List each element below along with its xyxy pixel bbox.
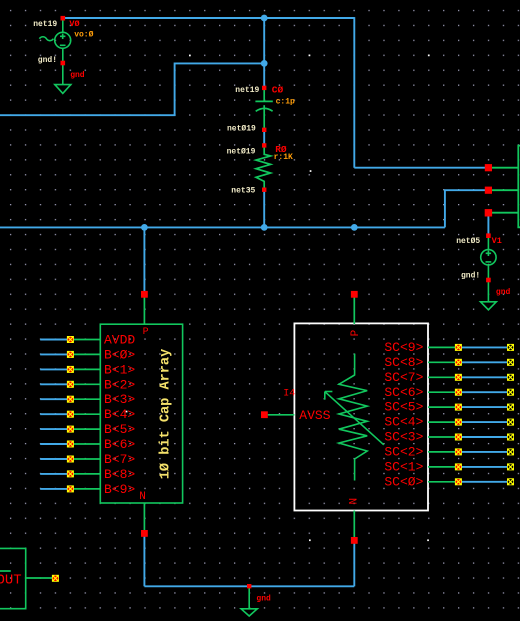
wire res block bottom bbox=[353, 544, 355, 587]
svg-text:SC<1>: SC<1> bbox=[384, 460, 423, 475]
cap array pin lead N bbox=[143, 503, 145, 531]
svg-text:SC<5>: SC<5> bbox=[384, 400, 423, 415]
pin io SC0 bbox=[455, 478, 462, 485]
capacitor C0 bbox=[255, 89, 272, 129]
pin square I4 N bbox=[351, 537, 358, 544]
wire B pin stub 7 bbox=[40, 443, 70, 445]
wire green stub B9 bbox=[71, 488, 101, 490]
svg-text:netØ5: netØ5 bbox=[456, 237, 480, 246]
wire net019 bbox=[263, 130, 265, 145]
pin io SC3 bbox=[455, 434, 462, 441]
svg-text:netØ19: netØ19 bbox=[227, 125, 256, 134]
pin square I4 P bbox=[351, 291, 358, 298]
wire cap top bbox=[263, 17, 265, 87]
wire green right pin1 bbox=[492, 167, 519, 169]
ground symbol V0 bbox=[55, 85, 71, 94]
svg-text:1Ø bit Cap Array: 1Ø bit Cap Array bbox=[159, 349, 174, 480]
junction net35 RC bbox=[261, 224, 268, 231]
svg-text:gnd: gnd bbox=[496, 288, 511, 297]
pin io B7 bbox=[67, 456, 74, 463]
pin square N bbox=[141, 530, 148, 537]
pin io SC8 bbox=[455, 359, 462, 366]
wire SC pin stub 4 bbox=[459, 406, 509, 408]
pin C0 top bbox=[262, 86, 266, 90]
wire cap array bottom bbox=[143, 536, 145, 586]
pin io OUT bbox=[52, 575, 59, 582]
block I4 pin lead N bbox=[353, 511, 355, 538]
pin io B3 bbox=[67, 396, 74, 403]
pin C0 bottom bbox=[262, 128, 266, 132]
svg-text:SC<6>: SC<6> bbox=[384, 385, 423, 400]
pin V0 plus bbox=[61, 16, 66, 21]
wire SC pin stub 1 bbox=[459, 361, 509, 363]
pin x SC5 bbox=[507, 404, 514, 411]
pin io B5 bbox=[67, 426, 74, 433]
wire green stub SC1 bbox=[428, 466, 459, 468]
pin V0 minus bbox=[61, 61, 66, 66]
pin io SC2 bbox=[455, 448, 462, 455]
wire SC pin stub 9 bbox=[459, 481, 509, 483]
pin x SC2 bbox=[507, 448, 514, 455]
wire green stub SC6 bbox=[428, 391, 459, 393]
wiper arrow bbox=[325, 392, 384, 445]
wire green stub B0 bbox=[71, 353, 101, 355]
ground symbol V1 bbox=[481, 302, 497, 310]
wire left step bbox=[0, 63, 264, 115]
wire green stub SC7 bbox=[428, 376, 459, 378]
svg-text:B<5>: B<5> bbox=[104, 422, 135, 437]
svg-text:B<1>: B<1> bbox=[104, 362, 135, 377]
pin square right 3 bbox=[485, 209, 492, 216]
svg-text:gnd: gnd bbox=[256, 595, 271, 604]
wire B pin stub 4 bbox=[40, 398, 70, 400]
wire net19 top bbox=[63, 17, 355, 19]
svg-text:SC<9>: SC<9> bbox=[384, 340, 423, 355]
wire SC pin stub 8 bbox=[459, 466, 509, 468]
resistor R0 bbox=[256, 147, 271, 189]
svg-text:B<3>: B<3> bbox=[104, 392, 135, 407]
pin V1 plus bbox=[486, 233, 491, 238]
pin x SC0 bbox=[507, 478, 514, 485]
wire green stub B6 bbox=[71, 443, 101, 445]
svg-text:N: N bbox=[348, 498, 360, 505]
junction net19 left bbox=[261, 60, 268, 67]
svg-text:gnd!: gnd! bbox=[38, 56, 57, 65]
svg-text:net19: net19 bbox=[235, 86, 259, 95]
pin x SC8 bbox=[507, 359, 514, 366]
wire SC pin stub 5 bbox=[459, 421, 509, 423]
svg-text:I4: I4 bbox=[283, 389, 295, 400]
svg-text:B<2>: B<2> bbox=[104, 377, 135, 392]
wire green stub SC5 bbox=[428, 406, 459, 408]
pin io B2 bbox=[67, 381, 74, 388]
block I4 box bbox=[294, 323, 428, 510]
svg-text:B<Ø>: B<Ø> bbox=[104, 347, 135, 362]
svg-text:vo:Ø: vo:Ø bbox=[74, 30, 93, 39]
svg-text:r:1K: r:1K bbox=[274, 153, 293, 162]
wire green stub B1 bbox=[71, 368, 101, 370]
wire net35 bbox=[263, 190, 265, 227]
cap array pin lead P bbox=[143, 297, 145, 324]
svg-text:P: P bbox=[143, 327, 149, 338]
wire green right pin3 bbox=[492, 212, 519, 214]
pin io B6 bbox=[67, 441, 74, 448]
svg-text:SC<Ø>: SC<Ø> bbox=[384, 474, 423, 489]
pin io B0 bbox=[67, 351, 74, 358]
svg-text:B<8>: B<8> bbox=[104, 467, 135, 482]
pin x SC6 bbox=[507, 389, 514, 396]
pin io SC5 bbox=[455, 404, 462, 411]
wire bottom horizontal bbox=[144, 585, 354, 587]
svg-text:gnd!: gnd! bbox=[461, 272, 480, 281]
pin square right 2 bbox=[485, 187, 492, 194]
junction net19 top bbox=[261, 15, 268, 22]
wire green stub B4 bbox=[71, 413, 101, 415]
wire right vertical bbox=[353, 17, 355, 168]
pin io SC9 bbox=[455, 344, 462, 351]
variable resistor bbox=[339, 354, 367, 481]
wire SC pin stub 2 bbox=[459, 376, 509, 378]
pin io SC6 bbox=[455, 389, 462, 396]
wire cap array top bbox=[143, 227, 145, 292]
svg-text:SC<2>: SC<2> bbox=[384, 445, 423, 460]
wire green stub B5 bbox=[71, 428, 101, 430]
wire B pin stub 1 bbox=[40, 353, 70, 355]
pin io B9 bbox=[67, 485, 74, 492]
junction net35 P right bbox=[351, 224, 358, 231]
wire green right pin2 bbox=[492, 189, 519, 191]
wire B pin stub 3 bbox=[40, 383, 70, 385]
voltage source V0 bbox=[39, 19, 70, 85]
wire SC pin stub 7 bbox=[459, 451, 509, 453]
voltage source V1 bbox=[481, 237, 496, 302]
wire green stub AVDD bbox=[71, 339, 101, 341]
wire AVSS stub bbox=[268, 414, 295, 416]
OUT block box bbox=[0, 548, 26, 608]
pin x SC9 bbox=[507, 344, 514, 351]
svg-text:net35: net35 bbox=[231, 186, 255, 195]
pin io B4 bbox=[67, 411, 74, 418]
wire B pin stub 8 bbox=[40, 458, 70, 460]
pin R0 top bbox=[262, 143, 266, 147]
svg-text:B<6>: B<6> bbox=[104, 437, 135, 452]
svg-text:netØ19: netØ19 bbox=[227, 147, 256, 156]
pin square AVSS bbox=[261, 411, 268, 418]
wire long horizontal bbox=[0, 226, 445, 228]
wire SC pin stub 0 bbox=[459, 346, 509, 348]
svg-text:SC<8>: SC<8> bbox=[384, 355, 423, 370]
wire SC pin stub 6 bbox=[459, 436, 509, 438]
wire green stub B3 bbox=[71, 398, 101, 400]
wire B pin stub 6 bbox=[40, 428, 70, 430]
pin gnd junction bbox=[247, 584, 251, 588]
svg-text:B<9>: B<9> bbox=[104, 482, 135, 497]
wire to right pin 1 bbox=[354, 167, 485, 169]
wire B pin stub 9 bbox=[40, 473, 70, 475]
svg-text:AVDD: AVDD bbox=[104, 333, 135, 348]
pin R0 bottom bbox=[262, 188, 266, 192]
wire OUT stub green bbox=[26, 577, 52, 579]
svg-text:net19: net19 bbox=[33, 20, 57, 29]
wire green stub SC4 bbox=[428, 421, 459, 423]
svg-text:B<4>: B<4> bbox=[104, 407, 135, 422]
pin io AVDD bbox=[67, 336, 74, 343]
svg-text:CØ: CØ bbox=[272, 85, 284, 96]
wire net05 V1 bbox=[487, 216, 489, 235]
pin square P bbox=[141, 291, 148, 298]
pin io SC1 bbox=[455, 463, 462, 470]
wire green stub B7 bbox=[71, 458, 101, 460]
pin io SC4 bbox=[455, 419, 462, 426]
pin x SC4 bbox=[507, 419, 514, 426]
svg-text:c:1p: c:1p bbox=[276, 97, 295, 106]
pin io B8 bbox=[67, 470, 74, 477]
wire OUT inner bbox=[0, 570, 11, 572]
pin io B1 bbox=[67, 366, 74, 373]
wire green stub B2 bbox=[71, 383, 101, 385]
offscreen component bracket bbox=[518, 146, 520, 228]
svg-text:B<7>: B<7> bbox=[104, 452, 135, 467]
block I4 pin lead P bbox=[353, 297, 355, 324]
svg-text:OUT: OUT bbox=[0, 573, 22, 589]
svg-text:SC<4>: SC<4> bbox=[384, 415, 423, 430]
svg-text:VØ: VØ bbox=[69, 19, 79, 29]
wire SC pin stub 3 bbox=[459, 391, 509, 393]
svg-text:P: P bbox=[350, 329, 362, 336]
pin io SC7 bbox=[455, 374, 462, 381]
wire green stub SC9 bbox=[428, 346, 459, 348]
wire B pin stub 0 bbox=[40, 339, 70, 341]
wire B pin stub 2 bbox=[40, 368, 70, 370]
svg-text:AVSS: AVSS bbox=[299, 408, 330, 423]
wire green stub SC2 bbox=[428, 451, 459, 453]
wire B pin stub 5 bbox=[40, 413, 70, 415]
pin square right 1 bbox=[485, 164, 492, 171]
wire green stub SC8 bbox=[428, 361, 459, 363]
ground bottom bbox=[248, 588, 250, 609]
svg-text:SC<7>: SC<7> bbox=[384, 370, 423, 385]
pin x SC1 bbox=[507, 463, 514, 470]
svg-text:V1: V1 bbox=[492, 236, 502, 246]
svg-text:SC<3>: SC<3> bbox=[384, 430, 423, 445]
svg-text:gnd: gnd bbox=[70, 71, 85, 80]
wire B pin stub 10 bbox=[40, 488, 70, 490]
pin V1 minus bbox=[486, 278, 491, 283]
wire green stub SC3 bbox=[428, 436, 459, 438]
wire green stub B8 bbox=[71, 473, 101, 475]
pin x SC3 bbox=[507, 434, 514, 441]
wire green stub SC0 bbox=[428, 481, 459, 483]
cap array block bbox=[100, 324, 182, 503]
pin x SC7 bbox=[507, 374, 514, 381]
svg-text:N: N bbox=[139, 491, 146, 503]
junction net35 P left bbox=[141, 224, 148, 231]
wire to right pin 2 bbox=[445, 190, 485, 227]
